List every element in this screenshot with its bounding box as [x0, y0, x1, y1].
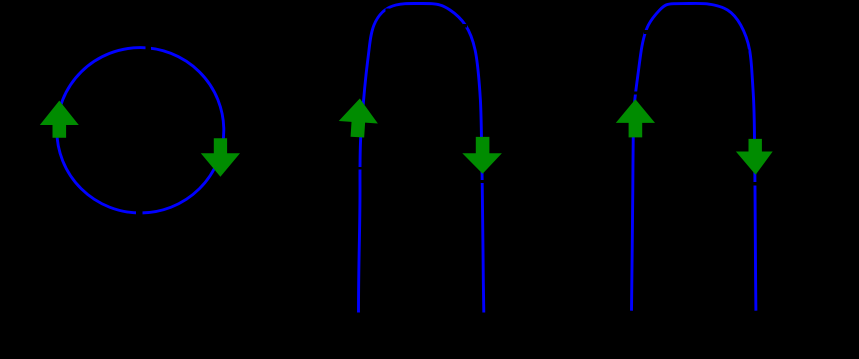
gap in middle hairpin right leg below arrow [480, 180, 485, 183]
gap in right hairpin left leg above arrow [633, 92, 638, 95]
gap in right hairpin right leg below arrow [754, 182, 759, 186]
gap in middle hairpin right shoulder [463, 24, 467, 28]
down arrow on right of ring [201, 138, 240, 177]
vortex ring (closed circular loop) [57, 48, 224, 213]
down arrow on middle hairpin right leg [462, 137, 502, 174]
up arrow on left of ring [40, 101, 79, 138]
gap in middle hairpin left shoulder [386, 9, 390, 13]
middle hairpin vortex line [359, 3, 484, 312]
gap in middle hairpin left leg above arrow [358, 91, 363, 95]
gap in right hairpin right shoulder [745, 50, 749, 54]
down arrow on right hairpin right leg [736, 139, 773, 175]
gap at bottom of ring [136, 210, 143, 216]
gap in right hairpin left shoulder [644, 30, 648, 34]
up arrow on middle hairpin left leg [338, 97, 380, 138]
right hairpin vortex line [632, 3, 756, 310]
up arrow on right hairpin left leg [616, 99, 655, 137]
gap at top of ring [146, 45, 152, 51]
gap in middle hairpin left leg [358, 167, 363, 170]
